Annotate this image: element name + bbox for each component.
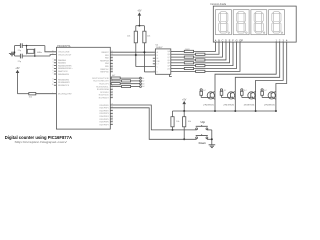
svg-text:22p: 22p [18,50,22,52]
svg-text:RC2/CCP1: RC2/CCP1 [99,84,108,86]
svg-text:OSC2/CLKOUT: OSC2/CLKOUT [58,54,72,56]
svg-text:30: 30 [111,123,113,125]
svg-text:RC1/T1OSI/CCP2: RC1/T1OSI/CCP2 [93,81,108,83]
svg-text:10k: 10k [147,36,150,38]
svg-text:RA1/AN1: RA1/AN1 [58,62,66,65]
svg-text:21: 21 [111,109,113,111]
svg-text:RE0/AN5/RD: RE0/AN5/RD [58,78,70,81]
svg-text:9: 9 [53,81,54,83]
svg-text:26: 26 [111,96,113,98]
svg-text:G: G [236,40,238,43]
svg-text:RB1: RB1 [105,55,109,57]
svg-text:4MHz: 4MHz [37,52,42,54]
svg-text:RB5: RB5 [105,66,109,68]
svg-text:RC0/T1OSO/T1CKI: RC0/T1OSO/T1CKI [92,78,109,80]
svg-text:RBI: RBI [157,61,160,63]
svg-text:RD6/PSP6: RD6/PSP6 [100,122,109,124]
svg-text:A4: A4 [142,85,144,88]
svg-text:RB0/INT: RB0/INT [101,52,109,54]
svg-text:5: 5 [53,67,54,69]
svg-text:4k7: 4k7 [224,90,227,92]
svg-text:RA4/T0CKI: RA4/T0CKI [58,70,68,73]
svg-text:40: 40 [111,71,113,73]
svg-text:A1: A1 [142,77,144,80]
svg-text:C: C [222,40,224,43]
svg-text:74LS47: 74LS47 [156,47,164,49]
svg-text:10: 10 [52,84,54,86]
svg-text:RB7/PGD: RB7/PGD [100,72,109,74]
svg-text:2: 2 [53,59,54,61]
svg-text:2N3906: 2N3906 [203,105,215,107]
svg-text:25: 25 [111,94,113,96]
svg-text:27: 27 [111,115,113,117]
svg-text:RA3/AN3/VREF+: RA3/AN3/VREF+ [58,67,73,70]
svg-text:100R: 100R [185,49,190,51]
svg-text:Common Anode: Common Anode [210,2,226,6]
svg-text:RA2/AN2/VREF-: RA2/AN2/VREF- [58,64,72,67]
svg-text:24: 24 [111,91,113,93]
svg-text:2N3906: 2N3906 [223,105,235,107]
svg-text:28: 28 [111,118,113,120]
svg-text:RD2/PSP2: RD2/PSP2 [100,110,109,112]
svg-text:http://ccspicc.blogspot.com/: http://ccspicc.blogspot.com/ [15,140,67,144]
svg-text:OSC1/CLKIN: OSC1/CLKIN [58,52,70,54]
svg-text:RD4/PSP4: RD4/PSP4 [100,116,109,118]
svg-text:A3: A3 [142,82,144,85]
svg-text:Up: Up [201,121,206,124]
svg-text:37: 37 [111,62,113,64]
svg-text:D: D [225,40,227,43]
svg-text:38: 38 [111,65,113,67]
svg-text:22: 22 [111,112,113,114]
svg-text:RC6/TX/CK: RC6/TX/CK [99,95,110,97]
svg-text:RB2: RB2 [105,58,109,60]
svg-text:RD3/PSP3: RD3/PSP3 [100,113,109,115]
svg-text:7: 7 [154,51,155,53]
svg-text:RD1/PSP1: RD1/PSP1 [100,108,109,110]
svg-text:+5V: +5V [182,99,187,101]
svg-text:10k: 10k [29,96,32,98]
svg-text:RB6/PGC: RB6/PGC [100,69,109,71]
svg-text:4: 4 [53,64,54,66]
svg-text:RC3/SCK/SCL: RC3/SCK/SCL [96,86,108,88]
svg-text:10k: 10k [176,121,179,123]
svg-text:A2: A2 [142,80,144,83]
svg-text:2N3906: 2N3906 [244,105,256,107]
svg-text:3: 3 [53,62,54,64]
svg-text:4k7: 4k7 [264,90,267,92]
svg-text:7: 7 [53,73,54,75]
svg-text:RE1/AN6/WR: RE1/AN6/WR [58,81,70,84]
svg-text:DP: DP [240,40,244,43]
svg-text:RA0/AN0: RA0/AN0 [58,59,66,62]
svg-text:RD5/PSP5: RD5/PSP5 [100,119,109,121]
svg-text:35: 35 [111,57,113,59]
svg-text:PIC16F877A: PIC16F877A [57,45,71,48]
svg-text:39: 39 [111,68,113,70]
svg-text:4k7: 4k7 [203,90,206,92]
svg-text:RB3/PGM: RB3/PGM [100,60,109,62]
svg-text:8: 8 [53,78,54,80]
svg-text:2: 2 [154,65,155,67]
svg-text:1: 1 [154,54,155,56]
svg-text:6: 6 [154,71,155,73]
svg-text:2N3906: 2N3906 [264,105,276,107]
svg-text:RB4: RB4 [105,63,109,65]
svg-text:RE2/AN7/CS: RE2/AN7/CS [58,84,70,87]
svg-text:Down: Down [199,142,207,145]
svg-text:29: 29 [111,121,113,123]
svg-text:RC7/RX/DT: RC7/RX/DT [99,98,110,100]
svg-text:RD7/PSP7: RD7/PSP7 [100,124,109,126]
svg-text:RC5/SDO: RC5/SDO [100,92,109,94]
svg-text:4k7: 4k7 [244,90,247,92]
svg-text:10k: 10k [127,36,130,38]
svg-text:RD0/PSP0: RD0/PSP0 [100,105,109,107]
svg-text:13: 13 [52,51,54,53]
svg-text:14: 14 [52,53,54,55]
svg-text:RC4/SDI/SDA: RC4/SDI/SDA [97,88,110,91]
svg-text:6: 6 [53,70,54,72]
svg-text:RA5/AN4/SS: RA5/AN4/SS [58,73,70,76]
svg-text:+5V: +5V [15,68,20,70]
svg-text:MCLR/Vpp/THV: MCLR/Vpp/THV [58,94,72,96]
svg-text:+5V: +5V [137,10,142,12]
svg-text:10k: 10k [188,121,191,123]
svg-text:22p: 22p [18,61,22,63]
svg-text:36: 36 [111,59,113,61]
svg-text:23: 23 [111,88,113,90]
